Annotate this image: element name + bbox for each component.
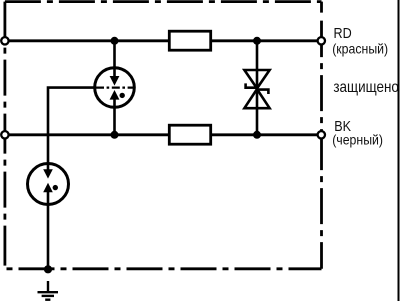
svg-text:(красный): (красный) — [332, 41, 388, 57]
ground symbol — [38, 281, 59, 300]
terminal circle left BK — [1, 131, 8, 138]
resistor R1 (top series impedance) — [169, 31, 210, 50]
wire: earth arrester to ground — [47, 204, 50, 269]
terminal circle right BK — [318, 131, 325, 138]
svg-text:RD: RD — [334, 24, 352, 41]
gas discharge tube F2 (earth arrester) — [28, 164, 69, 205]
svg-text:(черный): (черный) — [332, 132, 383, 148]
wire: GDT F1 vertical branch — [113, 41, 116, 135]
wire: center electrode to earth arrester — [48, 88, 96, 164]
terminal circle left RD — [1, 37, 8, 44]
protected-zone dashed border (chain line) — [5, 2, 322, 269]
TVS suppressor diode branch wire — [256, 41, 259, 135]
gas discharge tube F1 (3-electrode arrester) — [95, 68, 135, 108]
TVS suppressor diode VD1 (bidirectional) — [244, 70, 269, 108]
junction dot at border/ground node — [44, 265, 52, 273]
resistor R2 (bottom series impedance) — [169, 125, 210, 144]
table column rule at right edge — [398, 0, 400, 301]
terminal circle right RD — [318, 37, 325, 44]
junction dot TVS bottom — [253, 131, 261, 139]
junction dot F1 top — [111, 37, 119, 45]
top wire (RD line) — [5, 39, 321, 42]
bottom wire (BK line) — [5, 133, 321, 136]
junction dot F1 bottom — [111, 131, 119, 139]
junction dot TVS top — [253, 37, 261, 45]
svg-text:защищено: защищено — [333, 79, 398, 96]
